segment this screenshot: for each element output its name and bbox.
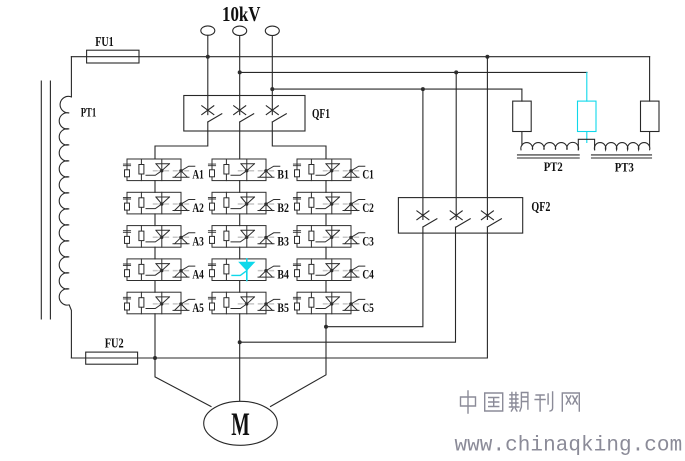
wire bus phase B (240, 71, 587, 73)
thyristor module C3 (293, 226, 364, 248)
wire QF2 pole A to FU2 bus (71, 227, 487, 358)
thyristor module A2 (123, 192, 194, 214)
wire column B to motor (239, 314, 241, 402)
thyristor module A4 (123, 259, 194, 281)
wire PT2-PT3 link (578, 139, 594, 150)
thyristor module B5 (208, 292, 279, 314)
node phase B tap (238, 70, 242, 74)
thyristor module A5 (123, 292, 194, 314)
svg-text:QF1: QF1 (312, 106, 330, 121)
wire bus phase C (272, 88, 522, 90)
terminal phase B (233, 26, 247, 35)
node QF2 feed A (485, 55, 489, 59)
thyristor module A1 (123, 159, 194, 181)
svg-text:FU2: FU2 (105, 336, 124, 351)
svg-text:B1: B1 (277, 167, 289, 182)
breaker QF1 (184, 96, 330, 132)
wire column A inter-module stubs (154, 181, 156, 293)
wire QF2 pole B to bus (240, 227, 456, 342)
svg-text:PT3: PT3 (615, 160, 634, 175)
svg-text:10kV: 10kV (222, 2, 261, 26)
thyristor module C4 (293, 259, 364, 281)
wire QF2 pole B drop (455, 72, 457, 219)
wire phase C vertical (271, 36, 273, 115)
thyristor module C5 (293, 292, 364, 314)
terminal phase A (201, 26, 215, 35)
svg-text:A5: A5 (192, 300, 204, 315)
motor M (204, 401, 278, 445)
fuse FU1 (87, 50, 139, 63)
watermark 中国期刊网 (461, 391, 580, 413)
wire column B inter-module stubs (239, 181, 241, 293)
svg-text:QF2: QF2 (531, 199, 550, 214)
transformer PT2 core (518, 155, 580, 158)
fuse on PT2 primary (513, 101, 532, 131)
fuse on PT3 primary (641, 101, 660, 131)
svg-text:B5: B5 (277, 300, 289, 315)
wire right drop to PT3 fuse (649, 57, 651, 101)
wire QF2 pole A drop (486, 57, 488, 220)
wire cyan drop (586, 72, 588, 142)
wire QF1 to column B (239, 122, 241, 159)
svg-text:PT2: PT2 (544, 159, 563, 174)
wire QF2 pole C drop (422, 89, 424, 219)
terminal phase C (265, 26, 279, 35)
wire column A to motor (155, 314, 211, 407)
fuse middle (cyan) (578, 101, 597, 131)
thyristor module C2 (293, 192, 364, 214)
transformer PT2 winding (521, 132, 579, 150)
svg-text:A4: A4 (192, 267, 204, 282)
thyristor module B3 (208, 226, 279, 248)
svg-text:A3: A3 (192, 233, 204, 248)
wire phase B vertical (239, 36, 241, 115)
svg-text:B4: B4 (277, 267, 289, 282)
fuse FU2 (86, 352, 138, 364)
wire FU1 to PT1 (70, 57, 72, 97)
node bus A / column A (153, 356, 157, 360)
transformer PT3 winding (594, 132, 649, 150)
wire column C to motor (271, 314, 327, 407)
breaker QF2 (398, 198, 550, 234)
transformer PT3 core (592, 155, 652, 158)
svg-text:C1: C1 (362, 167, 374, 182)
wire QF2 pole C to bus (326, 227, 423, 327)
svg-text:M: M (231, 407, 250, 443)
node phase A tap (206, 55, 210, 59)
svg-text:B2: B2 (277, 200, 289, 215)
wire phase A vertical (207, 35, 209, 114)
node bus C / column C (324, 325, 328, 329)
thyristor module B1 (208, 159, 279, 181)
svg-text:A1: A1 (192, 167, 204, 182)
thyristor module B4 highlighted (208, 259, 279, 281)
svg-text:C4: C4 (362, 267, 374, 282)
wire column C inter-module stubs (325, 181, 327, 293)
transformer PT1 winding (59, 96, 71, 358)
node bus B / column B (238, 340, 242, 344)
thyristor module A3 (123, 226, 194, 248)
node QF2 feed B (454, 70, 458, 74)
thyristor module B2 (208, 192, 279, 214)
wire bus phase A (through FU1) (71, 56, 649, 58)
transformer PT1 core (41, 81, 50, 319)
svg-text:C3: C3 (362, 233, 374, 248)
svg-text:C2: C2 (362, 200, 374, 215)
wire QF1 to column C (272, 122, 326, 159)
svg-text:B3: B3 (277, 233, 289, 248)
svg-text:PT1: PT1 (81, 105, 97, 120)
node QF2 feed C (421, 87, 425, 91)
svg-text:A2: A2 (192, 200, 204, 215)
wire QF1 to column A (155, 122, 208, 159)
svg-text:FU1: FU1 (95, 34, 114, 49)
wire drop to PT2 fuse (521, 89, 523, 101)
thyristor module C1 (293, 159, 364, 181)
svg-text:www.chinaqking.com: www.chinaqking.com (455, 435, 683, 458)
node phase C tap (270, 87, 274, 91)
svg-text:C5: C5 (362, 300, 374, 315)
